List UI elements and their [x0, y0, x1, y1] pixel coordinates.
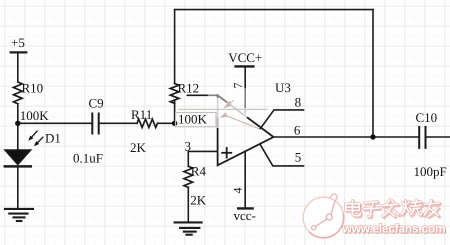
ground — [5, 209, 33, 221]
wire +5 to R10 — [17, 52, 19, 82]
svg-text:5: 5 — [295, 150, 302, 165]
center watermark wash — [205, 86, 259, 128]
svg-text:R10: R10 — [22, 80, 44, 95]
pin 3 wire — [188, 151, 217, 166]
resistor R12 — [170, 84, 179, 104]
svg-text:C10: C10 — [416, 110, 438, 125]
capacitor C9 — [91, 114, 93, 134]
wire C9 to R11 — [99, 122, 137, 124]
resistor R4 — [184, 166, 193, 187]
diode D1 — [5, 150, 31, 165]
wire C10 to edge — [426, 136, 450, 138]
feedback wire right vertical — [372, 10, 374, 137]
ground 2 — [175, 222, 202, 234]
svg-text:2K: 2K — [130, 140, 147, 155]
wire R11 to node A — [158, 122, 175, 124]
D1 light arrow 2 — [37, 137, 43, 143]
svg-text:www.elecfans.com: www.elecfans.com — [342, 222, 446, 236]
pin 2 stub wire — [187, 94, 217, 96]
pin 4 wire — [244, 151, 246, 208]
D1 light arrow 1 — [32, 131, 38, 137]
junction output/feedback — [370, 134, 375, 139]
watermark ghost box around 100K — [176, 113, 217, 127]
CJK shadow layer — [347, 201, 441, 218]
pin 5 wire — [260, 144, 304, 166]
capacitor C10 — [418, 127, 420, 148]
CJK white core layer — [346, 200, 440, 217]
svg-text:+5: +5 — [11, 35, 25, 50]
svg-text:100K: 100K — [20, 108, 50, 123]
svg-text:R4: R4 — [191, 164, 207, 179]
CJK pink outline layer — [346, 200, 440, 217]
wire D1 to ground — [17, 166, 19, 208]
svg-text:VCC+: VCC+ — [228, 50, 262, 65]
svg-text:3: 3 — [185, 139, 192, 154]
svg-text:100K: 100K — [178, 112, 208, 127]
svg-text:6: 6 — [294, 123, 301, 138]
VCC+ bar — [236, 65, 254, 67]
svg-text:7: 7 — [231, 83, 245, 89]
op-amp U3 triangle — [218, 95, 274, 165]
wire R12 to node A — [174, 100, 176, 123]
watermark ghost trace line — [221, 113, 226, 117]
svg-text:0.1uF: 0.1uF — [73, 150, 103, 165]
vcc- bar — [238, 207, 252, 209]
junction node A R11/R12 — [172, 121, 177, 126]
svg-text:U3: U3 — [275, 80, 291, 95]
www.elecfans.com watermark — [342, 222, 447, 237]
svg-text:D1: D1 — [45, 131, 61, 146]
resistor R11 — [137, 119, 157, 127]
plus sign — [222, 152, 231, 154]
feedback wire top — [175, 9, 373, 11]
power +5 bar — [11, 51, 27, 53]
watermark ghost arrow 1 — [221, 101, 259, 129]
svg-text:4: 4 — [230, 188, 244, 194]
svg-text:100pF: 100pF — [414, 164, 447, 179]
svg-text:8: 8 — [295, 94, 302, 109]
wire node to D1 — [17, 123, 19, 150]
wire feedback to R12 — [174, 10, 176, 84]
pin 8 wire — [260, 110, 303, 129]
pin 7 wire — [244, 66, 246, 115]
resistor R10 — [13, 82, 22, 104]
svg-text:R12: R12 — [178, 81, 200, 96]
svg-text:2K: 2K — [190, 193, 207, 208]
wire R4 to ground — [187, 187, 189, 222]
watermark ghost line — [179, 108, 269, 110]
D1 arrowhead 1 — [28, 136, 33, 141]
svg-text:R11: R11 — [131, 107, 152, 122]
elecfans watermark logo — [303, 194, 344, 238]
wire node to C9 — [18, 122, 93, 124]
svg-text:vcc-: vcc- — [234, 208, 256, 223]
wire R10 to node — [17, 104, 19, 123]
output pin 6 wire — [274, 136, 420, 138]
svg-text:C9: C9 — [89, 96, 104, 111]
D1 arrowhead 2 — [34, 141, 39, 146]
junction node R10/C9 — [15, 121, 20, 126]
